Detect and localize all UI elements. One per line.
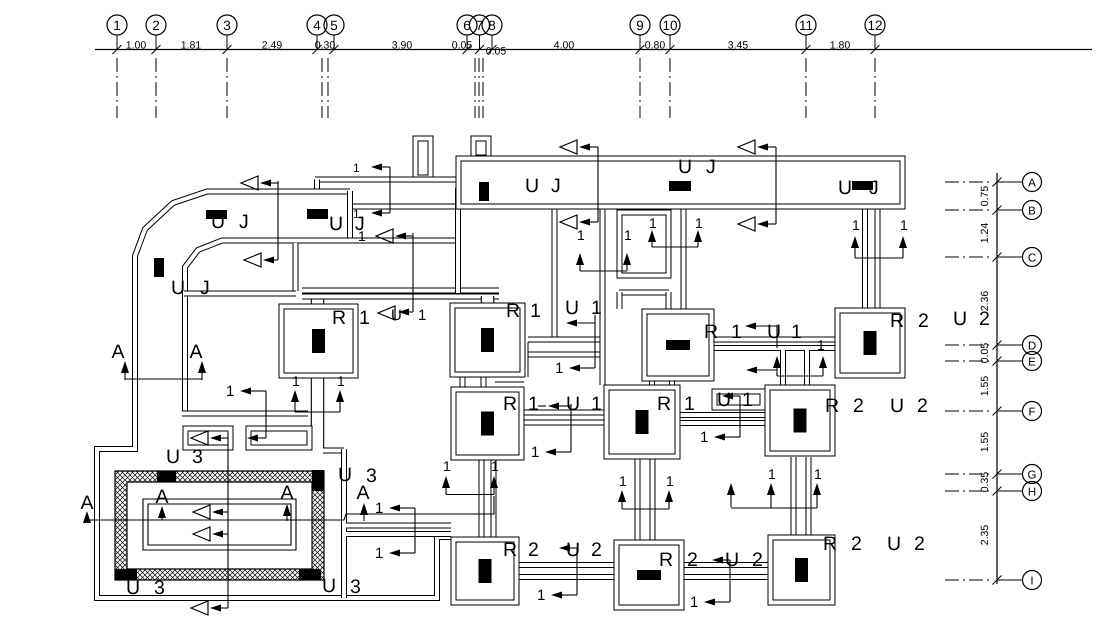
svg-text:U: U (525, 175, 539, 197)
svg-text:2: 2 (752, 549, 763, 571)
svg-text:1: 1 (690, 594, 698, 611)
svg-text:R: R (503, 393, 517, 415)
svg-text:1: 1 (624, 227, 632, 243)
svg-text:U: U (725, 549, 739, 571)
svg-text:U: U (211, 211, 225, 233)
svg-text:A: A (280, 482, 293, 504)
svg-text:H: H (1028, 487, 1036, 499)
svg-text:1.55: 1.55 (979, 432, 991, 453)
svg-text:1: 1 (731, 321, 742, 343)
svg-text:I: I (1030, 576, 1033, 588)
svg-text:U: U (329, 213, 343, 235)
svg-text:R: R (332, 307, 346, 329)
svg-text:A: A (111, 341, 124, 363)
svg-text:0.35: 0.35 (979, 472, 991, 493)
svg-text:J: J (239, 211, 249, 233)
svg-text:1: 1 (742, 389, 753, 411)
svg-text:U: U (953, 308, 967, 330)
svg-text:3: 3 (154, 577, 165, 599)
svg-text:1.80: 1.80 (830, 40, 851, 52)
svg-text:J: J (706, 156, 716, 178)
svg-text:U: U (717, 389, 731, 411)
svg-text:U: U (767, 321, 781, 343)
svg-text:U: U (838, 177, 852, 199)
svg-text:2: 2 (152, 18, 160, 33)
svg-text:1: 1 (768, 466, 776, 482)
svg-text:1: 1 (591, 393, 602, 415)
svg-text:3: 3 (192, 446, 203, 468)
svg-text:F: F (1028, 407, 1035, 419)
svg-text:1: 1 (418, 307, 426, 324)
svg-text:U: U (566, 393, 580, 415)
svg-text:0.05: 0.05 (452, 40, 473, 52)
svg-text:2: 2 (979, 308, 990, 330)
svg-text:1: 1 (619, 473, 627, 489)
svg-text:1: 1 (537, 587, 545, 604)
svg-text:J: J (551, 175, 561, 197)
svg-text:1: 1 (337, 373, 345, 389)
svg-text:U: U (322, 575, 336, 597)
svg-text:4.00: 4.00 (554, 40, 575, 52)
svg-text:U: U (890, 395, 904, 417)
svg-text:U: U (887, 533, 901, 555)
svg-text:U: U (566, 539, 580, 561)
svg-text:1: 1 (684, 393, 695, 415)
svg-text:1.55: 1.55 (979, 376, 991, 397)
svg-text:U: U (338, 464, 352, 486)
svg-text:1: 1 (359, 307, 370, 329)
svg-text:U: U (126, 577, 140, 599)
svg-text:1.24: 1.24 (979, 223, 991, 244)
svg-text:2: 2 (591, 539, 602, 561)
svg-text:0.80: 0.80 (645, 40, 666, 52)
svg-text:12: 12 (867, 18, 882, 33)
svg-text:2: 2 (851, 533, 862, 555)
svg-text:1: 1 (700, 429, 708, 446)
svg-text:A: A (189, 341, 202, 363)
svg-text:3: 3 (223, 18, 231, 33)
svg-text:11: 11 (799, 18, 813, 33)
svg-text:3.45: 3.45 (728, 40, 749, 52)
svg-text:9: 9 (636, 18, 644, 33)
svg-text:2: 2 (687, 549, 698, 571)
svg-text:2: 2 (528, 539, 539, 561)
svg-text:1: 1 (292, 373, 300, 389)
svg-text:1: 1 (791, 321, 802, 343)
svg-text:1: 1 (900, 217, 908, 233)
svg-text:8: 8 (488, 18, 496, 33)
svg-text:2: 2 (914, 533, 925, 555)
svg-text:1: 1 (443, 458, 451, 474)
svg-text:A: A (1028, 178, 1036, 190)
svg-text:R: R (659, 549, 673, 571)
svg-text:U: U (391, 307, 402, 324)
svg-text:1: 1 (591, 297, 602, 319)
svg-text:1: 1 (649, 215, 657, 231)
svg-text:2: 2 (853, 395, 864, 417)
svg-text:0.30: 0.30 (315, 40, 336, 52)
svg-text:1: 1 (814, 466, 822, 482)
svg-text:0.75: 0.75 (979, 186, 991, 207)
svg-text:3: 3 (350, 576, 361, 598)
svg-text:U: U (171, 277, 185, 299)
svg-text:1: 1 (226, 383, 234, 400)
svg-text:2.49: 2.49 (262, 40, 283, 52)
svg-text:B: B (1028, 206, 1036, 218)
svg-text:1: 1 (353, 161, 360, 175)
svg-text:1: 1 (577, 227, 585, 243)
svg-text:U: U (565, 297, 579, 319)
svg-text:1: 1 (555, 360, 563, 377)
svg-text:1: 1 (491, 458, 499, 474)
svg-text:1: 1 (666, 473, 674, 489)
svg-text:R: R (890, 310, 904, 332)
svg-text:2: 2 (918, 310, 929, 332)
svg-text:A: A (155, 486, 168, 508)
svg-text:R: R (823, 533, 837, 555)
svg-text:D: D (1028, 341, 1036, 353)
svg-text:1.81: 1.81 (181, 40, 202, 52)
svg-text:1: 1 (375, 545, 383, 562)
svg-text:1: 1 (530, 300, 541, 322)
svg-text:1.00: 1.00 (126, 40, 147, 52)
svg-text:1: 1 (817, 337, 825, 353)
svg-text:R: R (825, 395, 839, 417)
svg-text:2.35: 2.35 (979, 525, 991, 546)
svg-text:0.05: 0.05 (486, 46, 507, 58)
svg-text:G: G (1028, 470, 1037, 482)
svg-text:U: U (678, 156, 692, 178)
svg-text:0.05: 0.05 (979, 343, 991, 364)
svg-text:R: R (657, 393, 671, 415)
svg-text:R: R (503, 539, 517, 561)
svg-text:A: A (80, 492, 93, 514)
svg-text:C: C (1028, 253, 1036, 265)
svg-text:R: R (506, 300, 520, 322)
svg-text:4: 4 (313, 18, 321, 33)
svg-text:5: 5 (330, 18, 338, 33)
svg-text:2: 2 (917, 395, 928, 417)
svg-text:E: E (1028, 357, 1036, 369)
svg-text:U: U (166, 446, 180, 468)
svg-text:1: 1 (528, 393, 539, 415)
svg-text:1: 1 (695, 215, 703, 231)
svg-text:R: R (704, 321, 718, 343)
svg-text:J: J (200, 277, 210, 299)
svg-text:1: 1 (852, 217, 860, 233)
svg-text:10: 10 (662, 18, 677, 33)
svg-text:1: 1 (113, 18, 121, 33)
svg-text:1: 1 (531, 444, 539, 461)
svg-text:3.90: 3.90 (392, 40, 413, 52)
svg-text:J: J (355, 213, 365, 235)
svg-text:3: 3 (366, 465, 377, 487)
